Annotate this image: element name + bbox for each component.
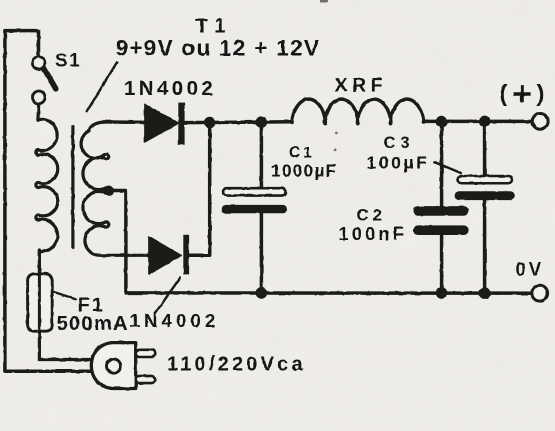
svg-text:C1: C1 — [289, 145, 315, 162]
svg-text:(: ( — [500, 80, 508, 106]
leader line 1N4002 bottom — [155, 278, 180, 314]
capacitor C3 branch wires — [483, 121, 487, 176]
node junction C1 / 0V rail — [256, 287, 268, 299]
switch S1 — [32, 51, 81, 104]
fuse F1 — [28, 250, 92, 360]
svg-text:110/220Vca: 110/220Vca — [167, 353, 306, 375]
inductor XRF — [292, 99, 424, 124]
svg-text:0V: 0V — [516, 259, 545, 280]
wire top rail left (secondary to diode) — [104, 120, 146, 124]
leader line T1 — [87, 62, 117, 111]
leader line C3 value — [434, 162, 461, 173]
capacitor C1 plates — [222, 188, 287, 213]
capacitor C1 branch wires — [260, 122, 264, 188]
node junction C2 / + rail — [436, 116, 448, 128]
node junction C3 / 0V rail — [479, 287, 491, 299]
svg-text:T1: T1 — [196, 16, 232, 38]
svg-text:XRF: XRF — [335, 74, 388, 96]
wire top rail right — [423, 120, 532, 124]
svg-text:1N4002: 1N4002 — [124, 77, 216, 100]
svg-text:1N4002: 1N4002 — [130, 310, 220, 331]
terminal 0V — [532, 285, 548, 301]
node center-tap — [104, 186, 114, 196]
wire 0V bottom rail — [126, 291, 532, 295]
svg-text:C3: C3 — [384, 134, 415, 152]
node junction C1 / + rail — [256, 116, 268, 128]
diode D1 1N4002 top — [145, 103, 185, 145]
svg-text:500mA: 500mA — [57, 312, 129, 335]
capacitor C2 plates — [413, 206, 469, 235]
wire bottom diode branch (down from + rail) — [189, 122, 210, 255]
node junction D2-cathode / + rail — [204, 117, 216, 129]
wire center-tap down to 0V rail — [109, 191, 126, 293]
svg-text:100nF: 100nF — [339, 224, 408, 244]
capacitor C2 branch wires — [440, 122, 444, 208]
wire — [5, 31, 92, 372]
svg-text:1000µF: 1000µF — [271, 161, 337, 181]
svg-text:100µF: 100µF — [367, 152, 430, 172]
leader line F1 — [53, 292, 76, 300]
transformer T1 primary winding — [36, 105, 58, 259]
diode D2 1N4002 bottom — [149, 235, 189, 275]
terminal (+) — [532, 114, 548, 130]
svg-text:): ) — [537, 80, 545, 106]
capacitor C3 plates — [455, 176, 515, 200]
wire diode D1 cathode to rail — [185, 120, 293, 124]
node junction C2 / 0V rail — [436, 287, 448, 299]
svg-text:9+9V ou 12 + 12V: 9+9V ou 12 + 12V — [116, 36, 321, 61]
plug 110/220 — [91, 343, 155, 389]
svg-text:S1: S1 — [55, 51, 81, 72]
transformer T1 secondary winding — [81, 122, 149, 255]
node junction C3 / + rail — [479, 116, 491, 128]
svg-text:C2: C2 — [357, 207, 387, 225]
transformer core — [71, 127, 74, 248]
